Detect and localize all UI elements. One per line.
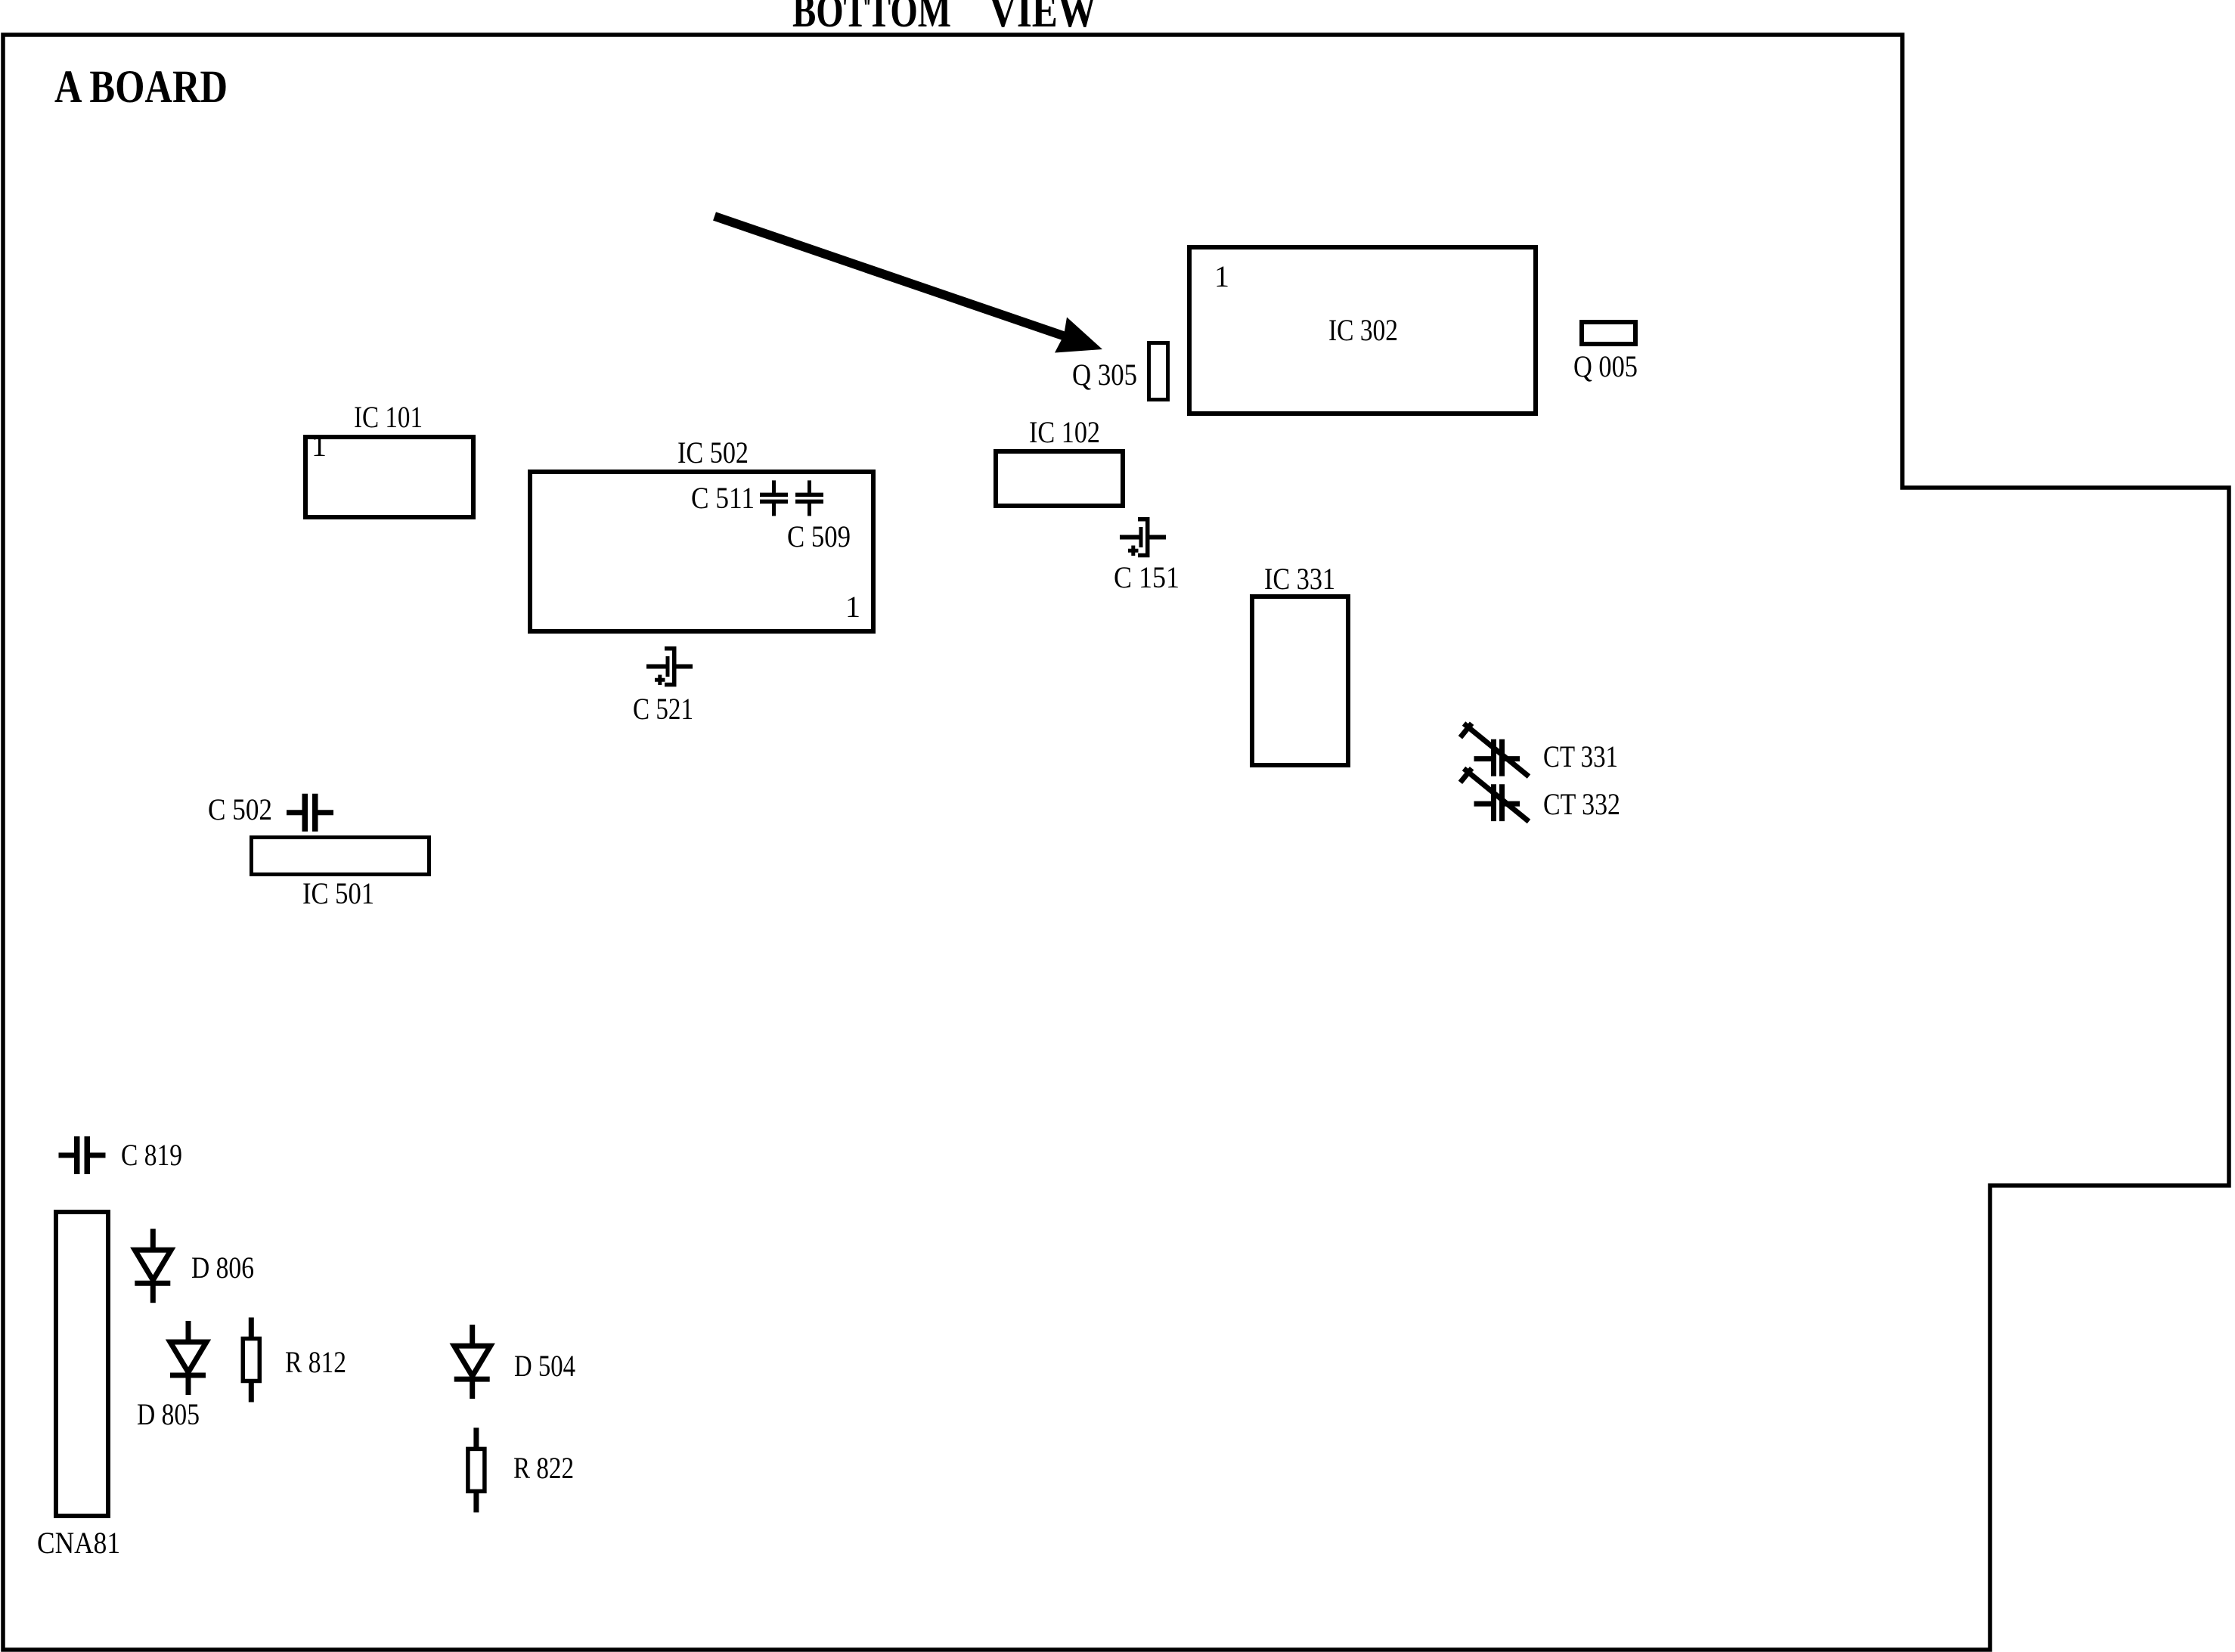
svg-text:BOTTOM: BOTTOM <box>792 0 951 37</box>
svg-text:CNA81: CNA81 <box>37 1526 120 1560</box>
svg-text:CT 331: CT 331 <box>1543 739 1618 773</box>
svg-text:C 511: C 511 <box>691 481 755 515</box>
svg-text:C 502: C 502 <box>208 792 272 826</box>
svg-text:R 822: R 822 <box>513 1451 574 1485</box>
svg-text:IC 102: IC 102 <box>1029 415 1100 449</box>
svg-text:D 504: D 504 <box>514 1349 575 1383</box>
svg-text:1: 1 <box>1214 259 1229 293</box>
svg-text:D 805: D 805 <box>137 1397 200 1431</box>
svg-text:Q 305: Q 305 <box>1072 358 1137 392</box>
svg-text:IC 101: IC 101 <box>354 400 423 434</box>
svg-text:C 819: C 819 <box>121 1138 182 1172</box>
svg-text:IC 302: IC 302 <box>1328 313 1398 347</box>
svg-text:VIEW: VIEW <box>989 0 1096 37</box>
svg-text:IC 501: IC 501 <box>302 876 374 910</box>
svg-text:IC 331: IC 331 <box>1264 562 1335 596</box>
svg-text:1: 1 <box>312 429 327 463</box>
svg-text:D 806: D 806 <box>191 1251 254 1285</box>
svg-text:IC 502: IC 502 <box>677 435 749 470</box>
svg-text:Q 005: Q 005 <box>1573 349 1638 383</box>
svg-text:C 509: C 509 <box>787 519 851 553</box>
svg-text:1: 1 <box>845 590 860 624</box>
svg-text:A BOARD: A BOARD <box>54 62 228 113</box>
svg-text:C 521: C 521 <box>633 692 693 726</box>
svg-text:CT 332: CT 332 <box>1543 787 1620 821</box>
svg-text:C 151: C 151 <box>1114 560 1179 594</box>
svg-text:R 812: R 812 <box>285 1345 346 1379</box>
